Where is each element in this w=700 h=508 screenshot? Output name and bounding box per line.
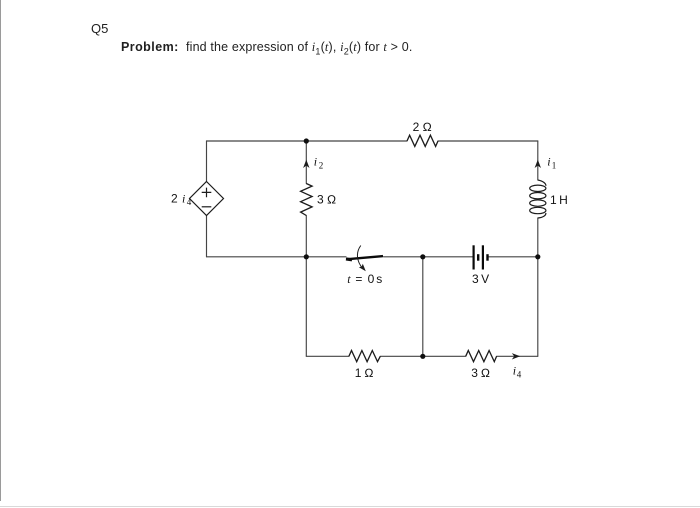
svg-text:2 Ω: 2 Ω: [413, 120, 432, 134]
svg-text:1 H: 1 H: [550, 193, 568, 207]
svg-text:i: i: [513, 364, 516, 378]
svg-text:1Ω: 1Ω: [355, 366, 374, 380]
svg-text:2: 2: [171, 192, 178, 206]
svg-text:i: i: [547, 155, 550, 169]
svg-text:3 V: 3 V: [472, 272, 489, 286]
svg-text:2: 2: [319, 160, 324, 170]
svg-text:t =0s: t =0s: [347, 272, 382, 286]
svg-text:4: 4: [187, 197, 192, 207]
svg-text:3 Ω: 3 Ω: [317, 193, 336, 207]
svg-text:3Ω: 3Ω: [471, 366, 490, 380]
svg-text:4: 4: [517, 369, 522, 379]
svg-text:i: i: [182, 192, 185, 206]
svg-text:1: 1: [552, 160, 557, 170]
svg-text:i: i: [314, 155, 317, 169]
